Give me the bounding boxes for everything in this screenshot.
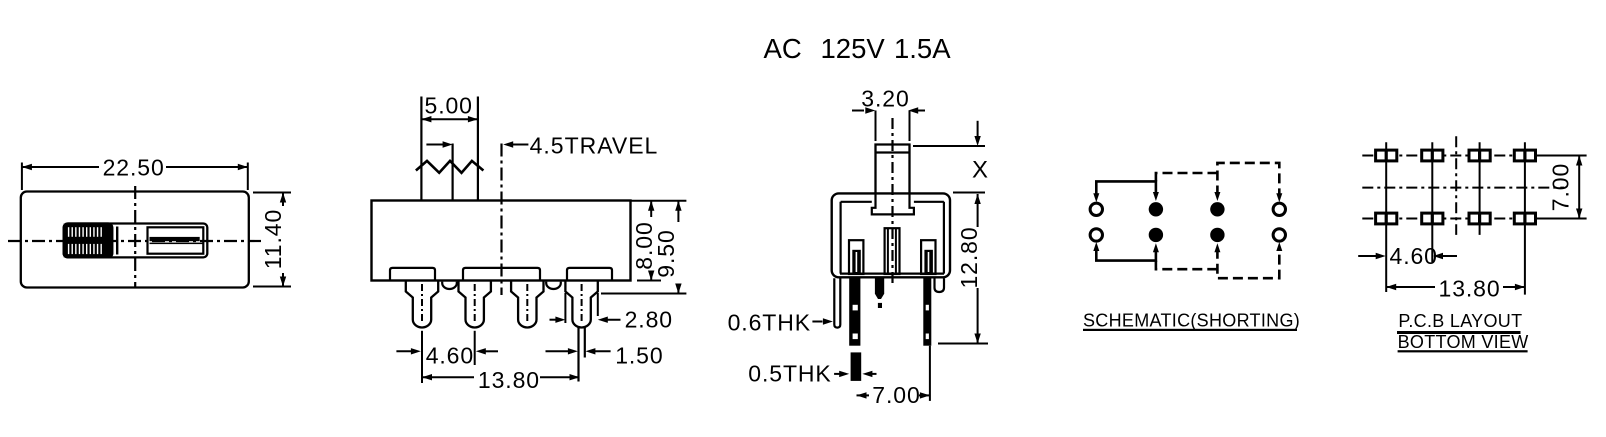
pcb column line 2 [1431,142,1433,262]
dimension 7.00 pcb [1578,156,1580,219]
dimension 11.40 [282,193,284,207]
pcb column line 1 [1385,142,1387,292]
svg-text:X: X [972,157,988,184]
dimension X [977,121,979,136]
top view knob slot outline [64,224,208,258]
schematic terminal 1 top (open) [1090,203,1102,215]
top view horizontal centerline [8,240,264,242]
svg-text:0.5THK: 0.5THK [748,361,831,387]
pcb row centerline middle [1362,187,1564,189]
front view pin 4 collar extension lines [564,293,566,323]
dimension 12.80 bottom extension line [938,343,988,345]
schematic wire dashed bottom outer [1217,249,1279,279]
pcb pad row2 col3 [1469,213,1490,224]
dimension 13.80 pcb [1386,284,1396,290]
pcb column line 3 [1479,142,1481,235]
dimension 11.40 extension lines [253,192,291,194]
dimension 12.80 [974,194,980,204]
svg-text:13.80: 13.80 [478,367,540,393]
svg-text:BOTTOM VIEW: BOTTOM VIEW [1398,332,1529,352]
dimension 3.20 [852,110,864,112]
front view mounting boss right [567,268,612,281]
extension line below pin 1 [421,331,423,383]
front view pin 2 [459,281,491,328]
svg-text:5.00: 5.00 [425,93,473,119]
dimension 13.80 front [422,374,432,380]
svg-text:2.80: 2.80 [625,307,673,333]
dimension 9.50 bottom extension line [601,293,686,295]
side view right pin [923,278,931,346]
front view pin 4 narrow lead [577,326,579,382]
side view right cover tab [935,278,945,292]
svg-text:7.00: 7.00 [872,382,920,408]
front view mounting boss middle [463,268,540,281]
dimension 1.50 [546,350,572,352]
svg-text:AC125V1.5A: AC125V1.5A [764,33,952,64]
schematic wire dashed top outer [1217,163,1279,196]
dimension 8.00 [650,201,652,217]
front view body [372,201,631,281]
dimension 8.00 bottom extension line [637,280,661,282]
dimension 3.20 extension lines [875,111,877,142]
front view mounting boss left [390,268,435,281]
top view slot inner rectangle [148,227,204,253]
top view knob edge bar [116,227,118,255]
side view left cover tab 0.6 thick [834,278,840,327]
pcb pad row2 col1 [1376,213,1397,224]
svg-text:11.40: 11.40 [260,209,286,269]
pcb pad row2 col2 [1422,213,1443,224]
top view vertical centerline [134,186,136,288]
schematic wire dashed top middle [1156,173,1218,181]
travel arrow right [426,144,445,146]
side view center pin stub [875,278,884,299]
svg-text:SCHEMATIC(SHORTING): SCHEMATIC(SHORTING) [1083,311,1300,331]
side view left contact [849,240,863,274]
pcb column line 4 [1524,142,1526,294]
front view knob side / extension lines [420,97,422,201]
side view cover inner lines [839,202,841,274]
front view pin 1 [406,281,438,328]
front view pin 4 [565,281,597,328]
front view locating bump left [442,282,457,289]
schematic terminal 4 top (open) [1273,203,1285,215]
front view locating bump right [546,282,561,289]
pcb pad row1 col3 [1469,150,1490,161]
dimension 2.80 [550,319,560,321]
svg-text:4.60: 4.60 [1390,243,1438,269]
dimension X extension line knob top [913,145,985,147]
schematic terminal 3 top (common, filled) [1210,202,1224,216]
svg-text:7.00: 7.00 [1548,163,1574,211]
dimension 12.80 top extension line [953,192,985,194]
side view knob [876,145,910,194]
pcb vertical centerline [1455,136,1457,235]
side view left pin [849,278,860,346]
svg-text:13.80: 13.80 [1439,275,1501,301]
schematic terminal 4 bottom (open) [1273,229,1285,241]
top view slot inner line [150,243,204,245]
svg-text:P.C.B LAYOUT: P.C.B LAYOUT [1398,311,1522,331]
pcb pad row1 col2 [1422,150,1443,161]
dimension 5.00 [421,118,478,120]
top view body outline [21,192,249,288]
pcb row centerline bottom [1362,218,1564,220]
side view center contact [885,228,900,274]
dimension 4.60 pcb [1358,255,1379,257]
dimension 22.50 extension lines [21,163,23,191]
side view right contact [921,240,935,274]
pcb pad row2 col4 [1514,213,1535,224]
side view vertical centerline [891,118,893,287]
top view knob ribbed grip [64,224,113,258]
schematic wire solid top position [1096,181,1156,195]
dimension 22.50 [22,166,99,168]
dimension 4.60 front [396,350,414,352]
side view body outline [832,193,950,277]
extension line below pin 2 [474,331,476,365]
svg-text:9.50: 9.50 [653,229,679,277]
svg-text:4.60: 4.60 [426,343,474,369]
schematic terminal 2 bottom (common, filled) [1149,228,1163,242]
extension line below right pin [929,346,931,401]
svg-text:3.20: 3.20 [861,86,909,112]
top view slot inner bar [150,237,200,241]
front view knob position mark [452,144,454,200]
front view vertical centerline [500,144,502,296]
dimension 8.00 top extension line [631,200,687,202]
dimension 7.00 pcb extension lines [1537,155,1587,157]
dimension 7.00 side [857,392,867,398]
svg-text:22.50: 22.50 [103,155,165,181]
schematic terminal 1 bottom (open) [1090,229,1102,241]
side view sectioned pin 0.5 thick [851,352,862,381]
front view knob break zigzag [416,161,484,173]
side view knob base inside body [872,194,914,214]
pcb row centerline top [1362,155,1564,157]
travel arrow left and label 4.5TRAVEL [503,141,513,147]
svg-text:12.80: 12.80 [956,226,982,288]
svg-text:0.6THK: 0.6THK [728,310,811,336]
schematic wire solid bottom position [1096,249,1156,261]
pcb pad row1 col1 [1376,150,1397,161]
svg-text:1.50: 1.50 [615,343,663,369]
side view base plate line [840,273,944,275]
schematic wire dashed bottom middle [1156,261,1218,270]
svg-text:4.5TRAVEL: 4.5TRAVEL [530,133,659,159]
front view pin 3 [511,281,543,328]
schematic terminal 3 bottom (common, filled) [1210,228,1224,242]
pcb pad row1 col4 [1514,150,1535,161]
schematic terminal 2 top (common, filled) [1149,202,1163,216]
dimension 9.50 [677,201,679,222]
